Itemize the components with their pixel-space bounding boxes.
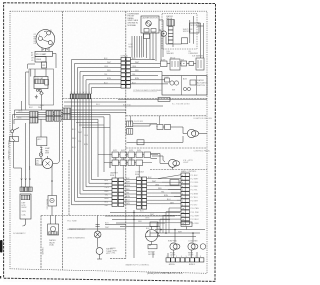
bottom text block [111,248,119,255]
thermostat wire arrows [51,181,53,183]
solenoid tail wire [97,255,102,260]
switch matrix labels [113,150,141,160]
dispenser control circles [170,81,174,85]
thermostat dot [40,153,43,156]
wire y106 [64,105,163,107]
ladder rung wires [124,180,137,205]
dispenser control inner text [165,77,188,92]
solenoid ticks [96,225,100,227]
control board feed wires [158,175,181,204]
harness extra vertical [92,88,101,95]
ice maker wires [166,16,193,47]
bottom connector labels [169,263,196,266]
defrost thermostat component [48,196,57,207]
wire compressor to relay [42,48,49,52]
wire thermostat top [51,165,53,216]
lights circuit 1 return [127,127,208,142]
compressor housing rect [29,69,54,105]
lights circuit 1 wire [133,124,183,127]
outer sheet border [4,3,216,282]
dispenser control box [162,76,207,95]
defrost heater text [22,203,27,217]
cabinet ladder A [112,178,124,207]
control board pin ticks [182,175,184,225]
fan labels above bulbs [168,240,198,243]
ladder rung labels [126,178,131,205]
lights label 1 [194,118,213,120]
lights bulb2 drop [172,167,174,169]
wire bundle top-left verticals [22,72,30,110]
ice maker terminal strip [168,27,173,44]
capacitor terminal circles [36,89,38,91]
section divider vertical x126 [125,11,127,258]
compressor internal wires [42,31,48,42]
scan artifact nub bottom-left [0,276,1,279]
run capacitor diamond [40,91,44,95]
harness wire labels mid [104,58,112,84]
defrost thermostat vertical text [47,198,49,209]
lights circuit 1 switch boxes [157,125,163,130]
solenoid wire [97,216,99,248]
lights circuit 2 bulb [169,159,180,167]
section divider horizontal y98.5 [63,98,208,100]
lower motor circle [96,248,103,255]
harness bundle horizontals [72,60,122,95]
water valve circle [50,226,55,231]
motor box [148,245,157,249]
line box [181,222,192,227]
ladder A left labels [105,180,110,207]
harness connector row labels [71,92,91,94]
section divider horizontal y169.5 [150,169,207,171]
dispenser control text [197,79,208,87]
lights circuit 1 left boxes [127,121,133,127]
ice maker chain component 5 [196,58,204,70]
lights circuit 2 wires [151,154,169,164]
bottom band dots [133,212,134,213]
ice maker cutoff text [183,29,194,33]
section divider vertical x62 [62,11,64,270]
overload box [35,57,46,63]
fan motor small box [36,159,43,166]
ladder B exit wires [147,179,181,204]
bottom notes text 1 [67,228,86,240]
run capacitor side box [45,79,49,85]
lights row1 drop wires [131,116,160,125]
defrost feed arrows [21,179,31,181]
water valve hatch [49,232,58,235]
ice maker chain component 3 [181,61,187,66]
fan motor inner marks [46,156,50,166]
bus junction block 1 [30,112,39,124]
ice maker chain component 1 [161,61,168,67]
ice maker heater hatched [167,20,174,26]
lights label 2 [183,160,193,164]
wire y99 labels [123,104,190,107]
relay small box [42,62,47,68]
bulb drop wires [150,244,197,258]
bus junction block 2 [46,111,61,121]
ice maker label [166,15,174,20]
lights return box [137,140,144,145]
ice maker motor box [190,23,200,33]
console connector ladder [121,57,130,88]
section divider vertical x69 [68,160,70,216]
ice maker chain component 4 [189,62,194,66]
aux small box left of line [150,222,158,227]
bottom connector row [166,258,204,262]
matrix to ladder drops [115,158,139,179]
bottom lamp wires [145,230,205,243]
section divider horizontal y258.6 [110,258,126,260]
compressor pin labels [39,30,55,46]
ice maker caption right [189,51,199,55]
auger motor winding blob [146,230,159,242]
auger motor circle [146,21,152,27]
defrost heater inner hatch [21,195,30,200]
page background [0,0,218,285]
compressor pin R [47,31,51,35]
compressor bottom ticks [43,49,49,51]
ice maker chain component 2 [170,59,180,70]
control board pin labels [191,175,201,225]
dispenser control circles 2 [183,87,186,90]
ice maker switch box [182,38,188,44]
ice maker caption left [167,51,175,55]
solenoid coil circle with X [94,231,101,238]
ladder B header [135,172,145,176]
dispenser switch matrix row 1 [112,152,151,158]
bundle-to-corner links [76,123,110,128]
section divider horizontal y148 [126,147,207,149]
thermostat circle [39,153,42,156]
defrost heater tall box [20,194,31,219]
auger motor pins [147,22,149,24]
harness connector row [70,94,91,99]
motor link wires [152,227,161,245]
ladder feed wires left [100,87,121,89]
control board column divider [184,173,186,225]
auger capacitor small box [144,34,150,39]
bottom wire labels right [146,228,183,234]
evap fan feed ticks [40,148,42,153]
ladder exit labels [132,58,140,84]
ground ticks in housing [35,95,38,99]
refr light label [188,252,194,256]
junction dots [160,229,162,231]
bus wire labels [17,105,45,120]
evap fan side text column [45,147,50,155]
ladder A header [110,172,119,177]
bottom wire labels [105,211,155,229]
ice maker motor circle [161,31,166,36]
condenser fan motor circle [43,158,53,168]
chain connecting wire [157,63,196,65]
run capacitor inner box [34,77,48,89]
section divider horizontal y115.8 lights [126,115,207,117]
freezer light bulb [170,243,180,250]
section divider vertical x41 bottom-left [40,216,42,270]
condenser loop wire [53,122,60,164]
harness verticals below connector [72,99,92,205]
chain inner ticks [172,60,201,68]
vertical text along divider [43,247,45,255]
small box on wire [158,97,170,101]
wire y102 [64,101,126,103]
compressor label text [34,34,37,45]
auger inner rects [144,29,149,33]
dispenser control inner box 1 [165,78,170,82]
harness nested corners to right [72,180,113,205]
temp control label vertical [9,139,11,160]
low side text [128,44,133,48]
control board feed small boxes [170,180,179,185]
auger motor box [141,16,159,33]
dispenser switch drop wires [132,36,142,58]
defrost feed verticals [22,166,30,187]
corner vertical links [98,155,112,168]
start relay box [35,51,53,56]
paper noise overlay [3,3,216,282]
bottom connector top labels [167,256,202,258]
lights circuit 1 bulb [187,129,198,137]
defrost heater ground hook [23,219,26,226]
ice maker motor dot [163,33,164,34]
fan motor box specks [36,161,39,165]
defrost thermostat circle [50,198,54,202]
refr light bulb [188,243,198,250]
cabinet ladder B [137,177,147,209]
aux lamp right [200,244,206,250]
inner schematic frame [10,11,207,273]
wire capacitor to bus [31,69,46,110]
water valve feed wires [51,216,56,225]
wires auger area down [144,33,154,60]
section divider horizontal y215.5 [41,215,180,217]
run capacitor hatched element [35,79,45,83]
defrost connector hatched row [20,187,32,192]
scan artifact black blob [0,240,3,253]
compressor motor circle [36,30,55,49]
ice maker right feed wires [197,23,204,58]
switch matrix wires [119,155,159,163]
lower motor label [106,248,113,256]
relay text [36,53,47,67]
water valve component [48,224,59,235]
temp control switch left [10,128,20,142]
bottom mid horizontal wires [69,210,180,258]
dispenser text block [128,13,140,26]
dispenser control bottom wire [118,98,207,100]
defrost control box [37,137,47,146]
lights left boxes inner ticks [129,121,131,134]
bus corner turns right side [98,115,110,177]
relay left entry wire [28,54,56,69]
chain labels [161,57,185,61]
harness wire color labels [72,129,89,149]
relay left label column [31,53,34,63]
compressor pin C [48,41,52,45]
dispenser control inner box 2 [190,80,196,85]
ladder exit wires right [130,60,168,84]
line box drop [186,227,188,230]
dispenser switch matrix row 2 [112,160,143,166]
defrost thermostat dot [52,200,53,201]
wires auger right verticals [156,20,163,61]
control board lower corner feeds [157,208,181,233]
freezer light label [170,252,176,256]
wire x29.6 vertical [14,123,30,170]
water valve text below [49,239,56,247]
main control board connector column [181,173,189,225]
bus junction block 3 [63,108,71,120]
motor caption [148,251,155,256]
wire bus to thermostat [40,119,42,158]
dispenser control partition [182,76,197,95]
ladder B right labels [148,177,175,204]
main horizontal bus [12,110,126,130]
compressor pin S [38,37,42,41]
ice maker dashed compartment [162,14,197,50]
